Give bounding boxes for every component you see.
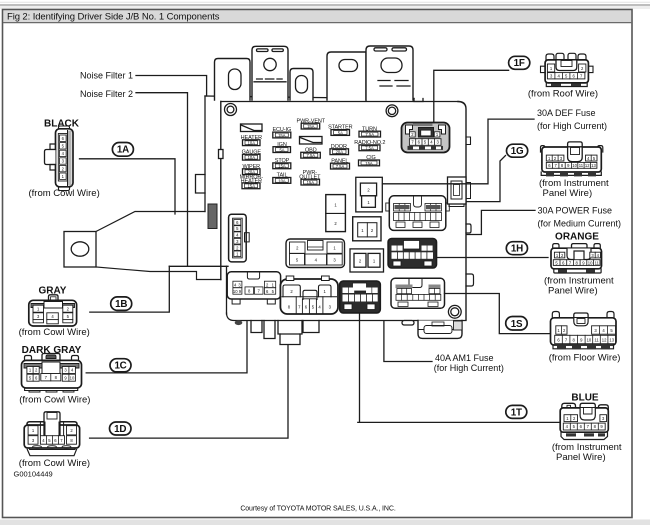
svg-text:10A: 10A — [248, 155, 256, 160]
bottom strip — [0, 520, 650, 525]
bottom edge tab 3 — [303, 321, 319, 333]
svg-text:Panel Wire): Panel Wire) — [543, 188, 593, 199]
svg-text:12: 12 — [602, 337, 607, 342]
top bracket B — [252, 46, 288, 100]
leader line 1G — [467, 156, 506, 202]
leader line 30A POWER fuse — [467, 210, 535, 234]
svg-text:Panel Wire): Panel Wire) — [556, 452, 606, 463]
svg-text:1S: 1S — [511, 319, 523, 330]
svg-text:1C: 1C — [114, 361, 126, 372]
svg-text:10: 10 — [572, 163, 577, 168]
screw top-middle — [386, 105, 398, 117]
connector plug DARK GRAY (1C) — [19, 345, 90, 406]
bottom-center connector below edge — [278, 321, 302, 335]
top bracket D — [327, 52, 366, 100]
leader line 1T — [358, 313, 560, 422]
left wall clip (dark) — [208, 204, 217, 229]
fuse DOOR 20A — [330, 144, 349, 155]
svg-text:Noise Filter 1: Noise Filter 1 — [80, 70, 133, 80]
top bracket C — [290, 69, 313, 101]
screw top-left — [225, 104, 237, 116]
left arm top edge — [96, 212, 205, 232]
callout oval 1C — [110, 359, 131, 372]
connector 1B socket (box bottom-left) — [227, 272, 280, 304]
svg-text:10: 10 — [70, 375, 75, 380]
fuse IGN 5A — [273, 142, 291, 153]
connector plug BLUE (1T) — [552, 392, 622, 462]
lower-left inner wall — [226, 266, 228, 314]
svg-text:13: 13 — [591, 163, 596, 168]
bracket C oval hole — [296, 76, 308, 94]
svg-text:10: 10 — [233, 289, 238, 294]
callout oval 1G — [507, 144, 528, 157]
svg-text:5A: 5A — [338, 130, 343, 135]
connector mid-right socket (12-pin) — [386, 196, 450, 231]
fuse PANEL 7.5A — [331, 158, 350, 169]
leader line noise filter 1 — [136, 76, 207, 97]
callout oval 1B — [111, 297, 132, 311]
right wall notch — [466, 137, 471, 145]
svg-text:Courtesy of TOYOTA MOTOR SALES: Courtesy of TOYOTA MOTOR SALES, U.S.A., … — [240, 506, 396, 513]
bracket B lower marks — [254, 79, 286, 82]
svg-text:15A: 15A — [365, 161, 373, 166]
svg-text:(from Floor Wire): (from Floor Wire) — [549, 353, 621, 364]
bracket D oval hole — [339, 60, 358, 72]
right edge lower ear — [466, 274, 474, 286]
bottom edge tab 1 — [251, 321, 262, 333]
fuse ECU-IG 15A — [272, 127, 291, 138]
svg-text:ORANGE: ORANGE — [555, 232, 599, 243]
fuse STOP 15A — [273, 158, 291, 169]
connector AM1 block (bottom right, inside box) — [391, 278, 445, 308]
svg-text:11: 11 — [579, 163, 584, 168]
svg-text:BLUE: BLUE — [571, 392, 599, 403]
left wall small bump — [219, 150, 224, 159]
bracket E lower marks — [378, 81, 410, 87]
callout oval 1F — [509, 56, 530, 69]
bracket B circle hole — [264, 58, 276, 70]
connector 1F socket (2x5, box top-right) — [402, 123, 450, 153]
leader line 40A AM1 fuse — [384, 321, 432, 362]
bracket E oval hole — [381, 58, 402, 73]
fuse RADIO-NO.2 7.5A — [354, 140, 385, 151]
connector 1T socket (dark, bottom middle) — [340, 281, 381, 313]
svg-text:G00104449: G00104449 — [14, 470, 53, 479]
leader line 1A — [80, 159, 176, 214]
svg-text:30A POWER Fuse: 30A POWER Fuse — [538, 205, 613, 215]
fuse PWR-OUTLET 15A — [299, 170, 321, 185]
fuse PWR-VENT 15A — [297, 118, 326, 129]
bottom edge oval tab — [402, 321, 414, 326]
bottom edge dark oval — [235, 320, 243, 325]
svg-text:(from Cowl Wire): (from Cowl Wire) — [29, 188, 100, 199]
connector plug GRAY (1B) — [19, 286, 90, 338]
J/B box right wall with rounded top corner — [458, 102, 466, 320]
DEF fuse bracket (box right edge) — [448, 177, 471, 207]
svg-text:15A: 15A — [307, 180, 315, 185]
svg-text:Panel Wire): Panel Wire) — [548, 286, 598, 297]
leader line 1H — [437, 257, 549, 259]
fuse WIPER 20A — [243, 164, 261, 175]
fuse HEATER 10A — [241, 135, 262, 146]
relay R2 (1/2 stacked) — [326, 195, 346, 232]
svg-text:10: 10 — [588, 260, 593, 265]
J/B box left inner wall — [220, 102, 222, 280]
leader line noise filter 2 — [136, 93, 188, 267]
bracket A oval hole — [229, 69, 242, 90]
svg-text:1G: 1G — [511, 146, 524, 157]
svg-text:5A: 5A — [279, 148, 284, 153]
bottom edge tab 2 — [264, 321, 275, 339]
connector 1H socket (dark, right) — [388, 239, 436, 269]
svg-text:7.5A: 7.5A — [365, 146, 374, 151]
svg-text:20A: 20A — [336, 150, 344, 155]
fuse MIRROR-HEATER 15A — [240, 174, 264, 188]
svg-text:(from Cowl Wire): (from Cowl Wire) — [19, 458, 90, 469]
callout oval 1S — [506, 317, 528, 331]
screw bottom-right — [448, 305, 461, 318]
leader line 30A DEF fuse — [383, 119, 535, 184]
svg-text:(from Cowl Wire): (from Cowl Wire) — [19, 395, 90, 406]
svg-text:13: 13 — [609, 337, 614, 342]
bracket E bottom tab — [414, 99, 423, 102]
svg-text:1D: 1D — [114, 424, 126, 435]
noise filter 1 component — [241, 124, 263, 132]
fuse TURN 7.5A — [359, 126, 381, 137]
title bar — [4, 11, 632, 23]
svg-text:(from Cowl Wire): (from Cowl Wire) — [19, 327, 90, 338]
J/B box left outer wall — [204, 96, 206, 212]
left arm pad — [64, 232, 96, 268]
svg-text:1A: 1A — [117, 145, 129, 156]
svg-text:15A: 15A — [307, 124, 315, 129]
POWER fuse ear (right edge) — [466, 224, 471, 233]
svg-text:11: 11 — [594, 337, 599, 342]
fuse TAIL 10A — [273, 173, 291, 184]
leader line 1F — [434, 70, 509, 122]
svg-text:7.5A: 7.5A — [365, 132, 374, 137]
connector plug 1G (from Instrument Panel Wire) — [539, 142, 609, 199]
leader line 1D — [90, 345, 288, 438]
top bracket A — [215, 59, 251, 101]
bracket B top slots — [257, 49, 269, 52]
svg-text:10A: 10A — [278, 178, 286, 183]
connector plug ORANGE (1H) — [544, 232, 614, 297]
lower-left ledge — [169, 265, 228, 267]
connector 1C socket (bottom middle-left) — [280, 276, 338, 314]
svg-text:40A AM1 Fuse: 40A AM1 Fuse — [435, 353, 494, 363]
connector plug 1S (from Floor Wire) — [549, 312, 621, 364]
svg-text:11: 11 — [595, 260, 600, 265]
svg-text:(for High Current): (for High Current) — [434, 363, 504, 373]
svg-text:10A: 10A — [248, 141, 256, 146]
svg-text:30A DEF Fuse: 30A DEF Fuse — [537, 108, 596, 118]
left arm bottom edge — [96, 267, 221, 280]
fuse CIG 15A — [359, 155, 380, 166]
svg-text:(for Medium Current): (for Medium Current) — [538, 218, 622, 228]
svg-text:(for High Current): (for High Current) — [537, 121, 607, 131]
svg-text:(from Roof Wire): (from Roof Wire) — [528, 89, 598, 100]
svg-text:15A: 15A — [278, 164, 286, 169]
connector 1A socket (tall 6-pin, box left) — [229, 214, 250, 262]
bracket E top slots — [374, 48, 387, 51]
relay R4 (wide 2,1 / 5,4,3) — [286, 239, 345, 268]
svg-text:10: 10 — [587, 337, 592, 342]
top bracket E — [366, 46, 413, 100]
fuse STARTER 5A — [328, 125, 353, 136]
svg-text:7.5A: 7.5A — [336, 164, 345, 169]
svg-text:12: 12 — [585, 163, 590, 168]
relay R5 (2|1 pair) — [350, 249, 384, 272]
relay R1 (2/1 stacked) — [356, 177, 383, 212]
callout oval 1D — [110, 422, 132, 435]
J/B box bottom edge — [227, 313, 467, 321]
connector plug BLACK (1A) — [29, 119, 100, 200]
svg-text:Noise Filter 2: Noise Filter 2 — [80, 89, 133, 99]
svg-text:1F: 1F — [514, 58, 525, 69]
left wall protrusion rect — [196, 175, 206, 194]
svg-text:1B: 1B — [115, 299, 127, 310]
callout oval 1A — [112, 143, 133, 157]
connector plug 1F (from Roof Wire) — [528, 53, 598, 99]
svg-text:15A: 15A — [278, 133, 286, 138]
AM1 high-current fuse housing (below bottom edge) — [418, 321, 462, 339]
svg-text:1T: 1T — [511, 407, 522, 418]
connector plug 1D — [19, 412, 90, 469]
svg-text:15A: 15A — [248, 184, 256, 189]
leader line 1S — [445, 294, 551, 334]
callout oval 1T — [506, 405, 527, 418]
pad oval hole — [71, 242, 89, 256]
noise filter 2 component — [300, 137, 323, 145]
relay R3 (1|2 pair) — [353, 217, 381, 241]
fuse GAUGE 10A — [242, 150, 262, 161]
svg-text:7.5A: 7.5A — [306, 153, 315, 158]
svg-text:Fig 2: Identifying Driver Side: Fig 2: Identifying Driver Side J/B No. 1… — [7, 12, 220, 23]
fuse OBD 7.5A — [301, 148, 321, 159]
svg-text:1H: 1H — [511, 244, 523, 255]
leader line 1B — [90, 266, 170, 312]
leader line 1C — [86, 321, 247, 373]
J/B main box top edge (double line) — [205, 96, 414, 99]
callout oval 1H — [506, 242, 527, 255]
